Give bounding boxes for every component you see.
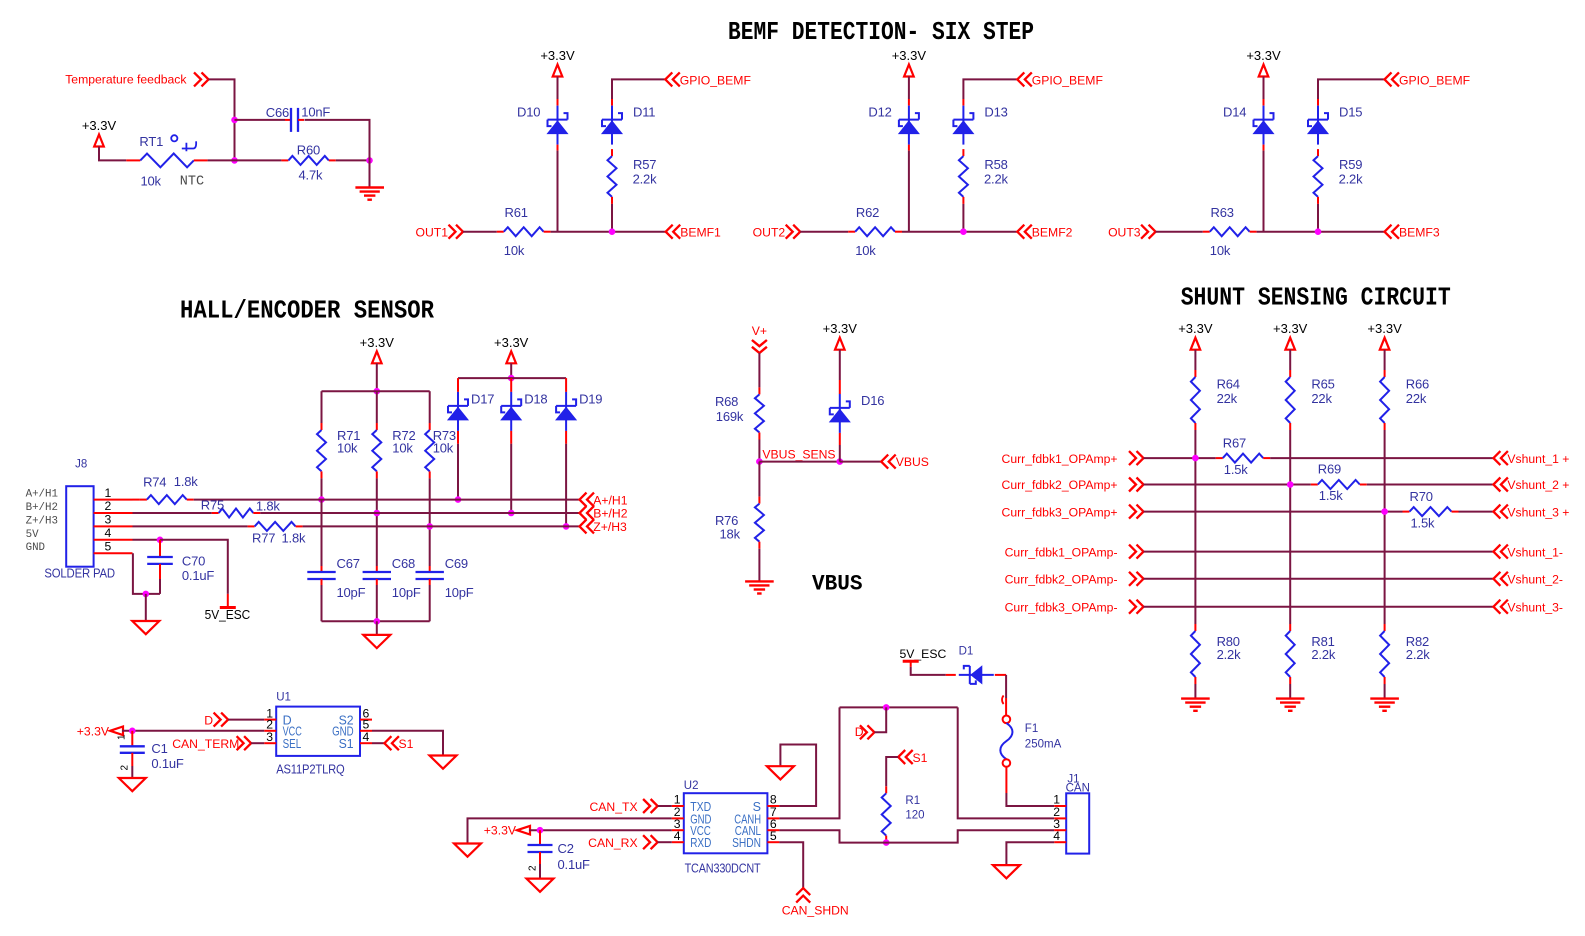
wire D17 to row xyxy=(457,431,459,444)
ground triangle J1 xyxy=(993,865,1020,878)
junction node BEMF1 xyxy=(609,228,616,235)
U2 pin 6 stub xyxy=(767,829,779,831)
port CAN_SHDN xyxy=(796,888,810,895)
wire R72 column row2 to C68 xyxy=(376,478,378,566)
wire rail to D17 xyxy=(457,378,459,392)
svg-text:250mA: 250mA xyxy=(1025,738,1062,750)
resistor R1 xyxy=(885,786,887,793)
ground triangle U2 GND xyxy=(454,844,481,857)
wire J8 pin3 to R77 xyxy=(133,525,248,527)
wire R61 to BEMF node xyxy=(551,231,666,233)
port Curr_fdbk1_OPAmp+ xyxy=(1137,451,1144,465)
svg-text:BEMF2: BEMF2 xyxy=(1032,226,1073,240)
wire +3.3V to RT1 xyxy=(99,147,126,161)
svg-text:Curr_fdbk2_OPAmp+: Curr_fdbk2_OPAmp+ xyxy=(1002,478,1118,492)
svg-text:10k: 10k xyxy=(1210,243,1231,258)
diode D17 xyxy=(457,392,459,431)
resistor R81 xyxy=(1289,624,1291,631)
resistor R70 xyxy=(1403,511,1410,513)
junction rail row 1 xyxy=(1192,455,1199,462)
svg-text:V+: V+ xyxy=(752,324,767,338)
wire U1 pin4 to S1 port xyxy=(372,742,384,744)
svg-text:3: 3 xyxy=(266,730,273,744)
svg-text:2.2k: 2.2k xyxy=(1311,647,1335,662)
port BEMF1 xyxy=(666,225,673,239)
port S1 U1 xyxy=(384,736,391,750)
port Temperature feedback xyxy=(202,72,209,86)
wire D10 to OUT row xyxy=(557,145,559,151)
wire +3.3V down to diode D14 xyxy=(1263,77,1265,100)
wire R57 to node xyxy=(611,204,613,232)
svg-text:120: 120 xyxy=(905,810,924,822)
pullup top rail wire xyxy=(322,390,430,392)
wire R59 to node xyxy=(1317,204,1319,232)
bottom rail wire hall xyxy=(322,620,430,622)
svg-text:R60: R60 xyxy=(297,143,320,158)
svg-text:4: 4 xyxy=(105,526,112,540)
resistor R72 xyxy=(376,423,378,430)
power +3.3V D14 column xyxy=(1259,65,1269,77)
svg-text:D18: D18 xyxy=(524,391,547,406)
resistor R67 xyxy=(1216,457,1223,459)
svg-text:Curr_fdbk1_OPAmp+: Curr_fdbk1_OPAmp+ xyxy=(1002,452,1118,466)
svg-text:+3.3V: +3.3V xyxy=(823,321,858,336)
svg-text:1.8k: 1.8k xyxy=(282,531,306,546)
capacitor C68 xyxy=(376,566,378,572)
NTC circle mark xyxy=(171,135,177,141)
svg-text:3: 3 xyxy=(105,513,112,527)
connector J1 body xyxy=(1066,793,1089,853)
svg-text:10k: 10k xyxy=(433,441,454,456)
wire D14 to OUT row xyxy=(1263,145,1265,151)
resistor R65 xyxy=(1289,370,1291,377)
port GPIO_BEMF D15 xyxy=(1385,72,1392,86)
svg-text:0.1uF: 0.1uF xyxy=(558,857,591,872)
capacitor C67 xyxy=(321,566,323,572)
svg-text:0.1uF: 0.1uF xyxy=(182,568,215,583)
wire 5V_ESC to D1 xyxy=(910,661,912,667)
svg-text:C70: C70 xyxy=(182,553,205,568)
svg-text:D1: D1 xyxy=(959,646,974,658)
wire right node to ground xyxy=(369,160,371,187)
svg-text:R70: R70 xyxy=(1410,489,1433,504)
U2 pin 4 stub xyxy=(672,841,684,843)
svg-text:Curr_fdbk3_OPAmp-: Curr_fdbk3_OPAmp- xyxy=(1005,600,1118,614)
wire +3.3V to R66 xyxy=(1384,350,1386,370)
svg-text:SHDN: SHDN xyxy=(732,836,761,850)
svg-text:2.2k: 2.2k xyxy=(633,172,657,187)
wire V+ to R68 xyxy=(758,353,760,387)
wire R1 to CANL jog xyxy=(885,842,887,844)
wire R58 to node xyxy=(962,204,964,232)
svg-text:R1: R1 xyxy=(905,795,920,807)
svg-text:R74: R74 xyxy=(143,475,166,490)
svg-text:D17: D17 xyxy=(471,391,494,406)
svg-text:Z+/H3: Z+/H3 xyxy=(593,520,627,534)
svg-text:Curr_fdbk1_OPAmp-: Curr_fdbk1_OPAmp- xyxy=(1005,545,1118,559)
svg-text:R64: R64 xyxy=(1217,377,1240,392)
wire S1 port to R1 xyxy=(886,757,898,786)
port Curr_fdbk3_OPAmp- xyxy=(1137,600,1144,614)
wire D18 to row xyxy=(510,431,512,444)
svg-text:+3.3V: +3.3V xyxy=(494,335,529,350)
wire to VBUS port xyxy=(840,461,881,463)
port GPIO_BEMF D11 xyxy=(665,72,672,86)
wire 5V node to 5V_ESC xyxy=(160,540,228,594)
wire R66 down rail xyxy=(1384,430,1386,624)
wire rail to R71 xyxy=(321,391,323,423)
svg-text:R77: R77 xyxy=(252,531,275,546)
svg-text:Vshunt_1 +: Vshunt_1 + xyxy=(1507,452,1569,466)
wire C1 to ground xyxy=(131,766,133,778)
ground triangle C2 xyxy=(527,879,554,892)
junction R1 bottom xyxy=(883,839,890,846)
svg-text:CAN_RX: CAN_RX xyxy=(588,836,637,850)
wire Curr_fdbk2_OPAmp- row xyxy=(1144,578,1494,580)
J8 pin 3 stub xyxy=(94,525,133,527)
wire R77 to port Z+/H3 row xyxy=(303,525,580,527)
svg-text:1.5k: 1.5k xyxy=(1411,515,1435,530)
IC U2 body xyxy=(684,793,768,853)
wire R64 down rail xyxy=(1194,430,1196,624)
junction right node xyxy=(366,157,373,164)
power +3.3V D10 column xyxy=(553,65,563,77)
capacitor C70 xyxy=(159,540,161,557)
svg-text:GND: GND xyxy=(26,542,45,554)
svg-text:R65: R65 xyxy=(1311,377,1334,392)
wire C70 to gnd node xyxy=(159,579,161,594)
IC U1 body xyxy=(276,707,360,756)
svg-text:C66: C66 xyxy=(266,105,289,120)
svg-text:4: 4 xyxy=(674,829,681,843)
junction node BEMF2 xyxy=(960,228,967,235)
svg-text:CAN_SHDN: CAN_SHDN xyxy=(782,904,849,918)
port Vshunt_3- xyxy=(1493,600,1500,614)
junction node RT1/R60 xyxy=(231,157,238,164)
resistor R74 xyxy=(140,499,147,501)
svg-text:10k: 10k xyxy=(392,441,413,456)
junction VBUS_SENS right xyxy=(837,458,844,465)
svg-text:D12: D12 xyxy=(868,104,891,119)
J1 pin 1 stub xyxy=(1054,805,1066,807)
svg-text:BEMF1: BEMF1 xyxy=(680,226,721,240)
power +3.3V RT1 xyxy=(94,135,104,147)
wire D12 to OUT row xyxy=(908,145,910,151)
svg-text:B+/H2: B+/H2 xyxy=(593,507,627,521)
wire CANH U2 pin7 to loop xyxy=(779,707,839,818)
power 5V_ESC hall xyxy=(220,606,236,609)
svg-text:RXD: RXD xyxy=(690,836,711,850)
svg-text:B+/H2: B+/H2 xyxy=(26,502,58,514)
power +3.3V U2 xyxy=(517,826,530,835)
svg-text:D10: D10 xyxy=(517,104,540,119)
svg-text:5: 5 xyxy=(105,539,112,553)
diode D18 xyxy=(510,392,512,431)
wire Curr_fdbk3_OPAmp+ row left xyxy=(1144,511,1403,513)
svg-text:D11: D11 xyxy=(633,104,655,119)
svg-text:+3.3V: +3.3V xyxy=(1246,48,1281,63)
svg-text:NTC: NTC xyxy=(180,175,204,190)
svg-text:SHUNT SENSING CIRCUIT: SHUNT SENSING CIRCUIT xyxy=(1181,284,1451,313)
wire rail to R73 xyxy=(429,391,431,423)
resistor R73 xyxy=(429,423,431,430)
junction D17 row xyxy=(455,496,462,503)
wire +3.3V to U2 pin3 VCC xyxy=(529,829,672,831)
svg-text:5V_ESC: 5V_ESC xyxy=(205,607,251,622)
svg-text:J8: J8 xyxy=(75,458,87,470)
port Z+/H3 xyxy=(580,519,587,533)
svg-text:0.1uF: 0.1uF xyxy=(151,756,184,771)
svg-text:CAN_TX: CAN_TX xyxy=(590,800,638,814)
U1 pin 2 stub xyxy=(264,730,276,732)
J1 pin 4 stub xyxy=(1054,841,1066,843)
svg-text:F1: F1 xyxy=(1025,723,1038,735)
wire C66 to right node xyxy=(305,120,370,160)
resistor R59 xyxy=(1317,149,1319,156)
svg-text:1: 1 xyxy=(105,486,112,500)
wire loop right down to J1 pin2 xyxy=(958,707,1054,818)
U1 pin 6 stub xyxy=(360,719,372,721)
port Curr_fdbk3_OPAmp+ xyxy=(1137,505,1144,519)
resistor R64 xyxy=(1194,370,1196,377)
U2 pin 5 stub xyxy=(767,841,779,843)
svg-text:D19: D19 xyxy=(579,391,602,406)
wire R75 to port B+/H2 row xyxy=(260,512,579,514)
svg-text:1.5k: 1.5k xyxy=(1319,488,1343,503)
diode D16 xyxy=(839,394,841,433)
svg-text:C69: C69 xyxy=(445,556,468,571)
svg-text:4.7k: 4.7k xyxy=(299,168,323,183)
wire +3.3V to pullup rail xyxy=(376,363,378,391)
junction D18 row xyxy=(508,510,515,517)
svg-text:U2: U2 xyxy=(684,780,699,792)
resistor R66 xyxy=(1384,370,1386,377)
junction VBUS_SENS left xyxy=(756,458,763,465)
resistor R80 xyxy=(1194,624,1196,631)
port Vshunt_3 + xyxy=(1493,505,1500,519)
svg-text:R59: R59 xyxy=(1339,157,1362,172)
svg-text:2: 2 xyxy=(528,865,539,871)
diode top rail wire xyxy=(458,377,566,379)
svg-text:C1: C1 xyxy=(151,741,167,756)
wire D19 to row xyxy=(565,431,567,444)
wire Curr_fdbk1_OPAmp- row xyxy=(1144,551,1494,553)
svg-text:5V: 5V xyxy=(26,529,39,541)
wire rail to R72 xyxy=(376,391,378,423)
svg-text:VBUS: VBUS xyxy=(896,455,929,469)
wire R70 row right xyxy=(1459,511,1494,513)
svg-text:18k: 18k xyxy=(720,526,741,541)
port S1 U2 xyxy=(898,750,905,764)
wire OUT1 to R61 xyxy=(463,231,497,233)
svg-text:GPIO_BEMF: GPIO_BEMF xyxy=(1399,73,1470,87)
wire +3.3V to D16 xyxy=(839,350,841,380)
port Vshunt_2 + xyxy=(1493,478,1500,492)
resistor R75 xyxy=(212,512,219,514)
wire R62 to BEMF node xyxy=(902,231,1017,233)
wire Curr_fdbk3_OPAmp- row xyxy=(1144,606,1494,608)
J1 pin 3 stub xyxy=(1054,829,1066,831)
resistor R68 xyxy=(758,387,760,394)
svg-text:VBUS_SENS: VBUS_SENS xyxy=(762,447,835,461)
svg-text:22k: 22k xyxy=(1311,391,1332,406)
U1 pin 4 stub xyxy=(360,742,372,744)
svg-text:D: D xyxy=(204,713,213,727)
svg-text:Vshunt_3-: Vshunt_3- xyxy=(1507,600,1563,614)
svg-text:+3.3V: +3.3V xyxy=(1273,321,1308,336)
J8 pin 2 stub xyxy=(94,512,133,514)
resistor R76 xyxy=(758,497,760,504)
svg-text:10k: 10k xyxy=(337,441,358,456)
svg-text:Vshunt_3 +: Vshunt_3 + xyxy=(1507,505,1569,519)
svg-text:R57: R57 xyxy=(633,157,656,172)
wire VBUS_SENS to R76 xyxy=(758,462,760,497)
power +3.3V D16 xyxy=(835,338,845,350)
connector J8 xyxy=(66,486,93,567)
svg-text:A+/H1: A+/H1 xyxy=(26,489,58,501)
svg-text:22k: 22k xyxy=(1217,391,1238,406)
svg-text:CAN: CAN xyxy=(1066,783,1090,795)
diode D1 xyxy=(959,674,994,676)
wire U1 GND pin5 to ground xyxy=(372,731,443,756)
svg-text:U1: U1 xyxy=(276,692,291,704)
svg-text:R69: R69 xyxy=(1318,462,1341,477)
svg-text:Vshunt_2 +: Vshunt_2 + xyxy=(1507,478,1569,492)
svg-text:+3.3V: +3.3V xyxy=(892,48,927,63)
svg-text:1.5k: 1.5k xyxy=(1224,462,1248,477)
port D U1 xyxy=(221,713,228,727)
svg-text:+3.3V: +3.3V xyxy=(1178,321,1213,336)
port OUT3 xyxy=(1149,225,1156,239)
wire R76 to ground xyxy=(758,549,760,582)
thermistor RT1 xyxy=(126,159,140,161)
junction R73 row3 xyxy=(426,523,433,530)
U1 pin 1 stub xyxy=(264,719,276,721)
wire OUT2 to R62 xyxy=(800,231,848,233)
junction bottom rail xyxy=(374,618,381,625)
port Vshunt_2- xyxy=(1493,572,1500,586)
power +3.3V hall diodes xyxy=(506,351,516,363)
wire R63 to BEMF node xyxy=(1257,231,1385,233)
svg-text:1.8k: 1.8k xyxy=(174,474,198,489)
svg-text:10k: 10k xyxy=(855,243,876,258)
wire R65 down rail xyxy=(1289,430,1291,624)
wire +3.3V down to diode D10 xyxy=(557,77,559,100)
resistor R60 xyxy=(281,159,288,161)
wire rail to D18 xyxy=(510,378,512,392)
power +3.3V shunt rail 1 xyxy=(1191,338,1201,350)
svg-text:R75: R75 xyxy=(201,498,224,513)
wire C69 to bottom rail xyxy=(429,585,431,621)
port CAN_TERM xyxy=(244,736,251,750)
wire R73 column row3 to C69 xyxy=(429,478,431,566)
diode D13 xyxy=(962,106,964,145)
svg-text:S1: S1 xyxy=(339,737,354,751)
svg-text:GPIO_BEMF: GPIO_BEMF xyxy=(1032,73,1103,87)
loop top wire xyxy=(840,706,958,708)
svg-text:22k: 22k xyxy=(1406,391,1427,406)
svg-text:R68: R68 xyxy=(715,394,738,409)
svg-text:Z+/H3: Z+/H3 xyxy=(26,515,58,527)
svg-text:10pF: 10pF xyxy=(392,585,421,600)
wire U2 pin8 S to ground xyxy=(779,745,816,807)
svg-text:CAN_TERM: CAN_TERM xyxy=(172,737,239,751)
wire OUT3 to R63 xyxy=(1156,231,1203,233)
port B+/H2 xyxy=(580,506,587,520)
svg-text:OUT3: OUT3 xyxy=(1108,226,1141,240)
resistor R58 xyxy=(962,149,964,156)
port GPIO_BEMF D13 xyxy=(1017,72,1024,86)
port OUT2 xyxy=(793,225,800,239)
junction at C66 top tap xyxy=(231,117,238,124)
wire GPIO_BEMF to D15 xyxy=(1318,79,1385,99)
svg-text:Temperature feedback: Temperature feedback xyxy=(65,73,187,87)
svg-text:BEMF3: BEMF3 xyxy=(1399,226,1440,240)
J8 pin 4 stub xyxy=(94,539,133,541)
ground triangle U2 S pin xyxy=(767,766,794,779)
wire R71 to row1 xyxy=(321,478,323,499)
svg-text:10pF: 10pF xyxy=(445,585,474,600)
wire node to R60 xyxy=(235,159,282,161)
junction C1 top xyxy=(129,728,136,735)
svg-text:BEMF DETECTION- SIX STEP: BEMF DETECTION- SIX STEP xyxy=(728,18,1034,47)
svg-text:R62: R62 xyxy=(856,205,879,220)
power +3.3V hall pullups xyxy=(372,351,382,363)
wire R71 column row1 to C67 xyxy=(321,500,323,566)
ground triangle hall caps xyxy=(363,635,390,648)
wire F1 to J1 pin1 xyxy=(1005,767,1007,793)
svg-text:1: 1 xyxy=(117,734,128,740)
port A+/H1 xyxy=(580,493,587,507)
ground triangle J8 xyxy=(132,621,159,634)
svg-text:R63: R63 xyxy=(1211,205,1234,220)
wire CAN_RX to U2 pin4 xyxy=(658,841,672,843)
U2 pin 2 stub xyxy=(672,817,684,819)
svg-text:D16: D16 xyxy=(861,393,884,408)
capacitor C2 xyxy=(539,830,541,845)
svg-text:A+/H1: A+/H1 xyxy=(593,493,627,507)
ground triangle U1 GND xyxy=(430,756,457,769)
U2 pin 1 stub xyxy=(672,805,684,807)
port VBUS xyxy=(881,455,888,469)
wire C68 to bottom rail xyxy=(376,585,378,621)
power +3.3V D12 column xyxy=(904,65,914,77)
svg-text:1.8k: 1.8k xyxy=(256,498,280,513)
port D U2 xyxy=(867,725,874,739)
port CAN_TX xyxy=(651,799,658,813)
resistor R77 xyxy=(248,525,255,527)
svg-text:D15: D15 xyxy=(1339,104,1362,119)
ground earth shunt rail 3 xyxy=(1370,697,1399,699)
svg-text:SOLDER PAD: SOLDER PAD xyxy=(44,566,115,581)
wire J8 pin2 to R75 xyxy=(133,512,212,514)
svg-text:4: 4 xyxy=(363,730,370,744)
svg-text:C2: C2 xyxy=(558,841,574,856)
wire R80 to ground xyxy=(1194,684,1196,699)
svg-text:Curr_fdbk2_OPAmp-: Curr_fdbk2_OPAmp- xyxy=(1005,573,1118,587)
wire J1 pin4 to ground xyxy=(1006,842,1054,865)
port Curr_fdbk2_OPAmp+ xyxy=(1137,478,1144,492)
svg-text:+3.3V: +3.3V xyxy=(360,335,395,350)
svg-text:Vshunt_2-: Vshunt_2- xyxy=(1507,573,1563,587)
resistor R63 xyxy=(1203,231,1210,233)
wire R67 row right xyxy=(1270,457,1493,459)
wire +3.3V to R64 xyxy=(1194,350,1196,370)
wire R68 to VBUS_SENS node xyxy=(758,440,760,462)
junction rail row 2 xyxy=(1287,481,1294,488)
svg-text:2.2k: 2.2k xyxy=(984,172,1008,187)
ground earth VBUS xyxy=(745,580,774,582)
